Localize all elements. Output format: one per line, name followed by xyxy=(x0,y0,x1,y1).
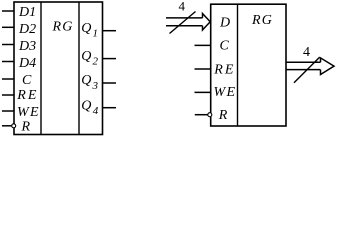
svg-text:R: R xyxy=(21,120,31,135)
inversion bubble on R pin of U2 xyxy=(208,113,212,117)
bus wire into D (top line) xyxy=(166,17,203,19)
register U1 left label-column divider xyxy=(40,2,42,135)
wire input D2 xyxy=(2,26,14,28)
svg-text:C: C xyxy=(220,38,230,53)
wire input R xyxy=(2,125,12,127)
svg-text:2: 2 xyxy=(93,55,99,67)
wire input D3 xyxy=(2,44,14,46)
output bus wire (top line) xyxy=(286,61,321,63)
wire input RE of U2 xyxy=(195,68,211,70)
wire input R of U2 xyxy=(195,114,208,116)
svg-text:RE: RE xyxy=(16,88,38,103)
svg-text:C: C xyxy=(22,73,32,88)
svg-text:D1: D1 xyxy=(18,5,36,20)
wire input C xyxy=(2,78,14,80)
wire input D4 xyxy=(2,61,14,63)
wire input WE of U2 xyxy=(195,91,211,93)
svg-text:Q: Q xyxy=(81,99,91,114)
wire output Q4 xyxy=(103,107,117,109)
svg-text:D: D xyxy=(219,15,230,30)
svg-text:WE: WE xyxy=(17,105,40,120)
svg-text:WE: WE xyxy=(214,85,237,100)
svg-text:R: R xyxy=(218,108,228,123)
wire input D1 xyxy=(2,10,14,12)
register U1 right output-column divider xyxy=(78,2,80,135)
svg-text:3: 3 xyxy=(92,80,99,92)
svg-text:D2: D2 xyxy=(18,22,36,37)
inversion bubble on R pin of U1 xyxy=(12,124,16,128)
svg-text:D3: D3 xyxy=(18,39,36,54)
wire input C of U2 xyxy=(195,44,211,46)
svg-text:4: 4 xyxy=(303,45,310,60)
svg-text:4: 4 xyxy=(93,105,99,117)
output bus arrowhead xyxy=(321,58,335,75)
svg-text:RG: RG xyxy=(52,20,74,35)
output bus wire (bottom line) xyxy=(286,69,321,71)
svg-text:RE: RE xyxy=(213,63,235,78)
bus width slash on output bus xyxy=(294,57,320,83)
register U2 body xyxy=(211,4,286,126)
wire output Q2 xyxy=(103,58,117,60)
bus width slash on input bus xyxy=(170,12,196,34)
svg-text:4: 4 xyxy=(179,0,186,14)
bus arrowhead into D xyxy=(203,14,211,31)
wire input RE xyxy=(2,94,14,96)
svg-text:Q: Q xyxy=(81,49,91,64)
bus wire into D (bottom line) xyxy=(166,25,203,27)
wire output Q3 xyxy=(103,82,117,84)
svg-text:1: 1 xyxy=(93,28,99,40)
svg-text:RG: RG xyxy=(251,13,273,28)
wire output Q1 xyxy=(103,30,117,32)
svg-text:Q: Q xyxy=(81,73,91,88)
svg-text:Q: Q xyxy=(81,21,91,36)
svg-text:D4: D4 xyxy=(18,56,36,71)
wire input WE xyxy=(2,110,14,112)
register U1 body xyxy=(14,2,103,135)
register U2 label-column divider xyxy=(237,4,239,126)
